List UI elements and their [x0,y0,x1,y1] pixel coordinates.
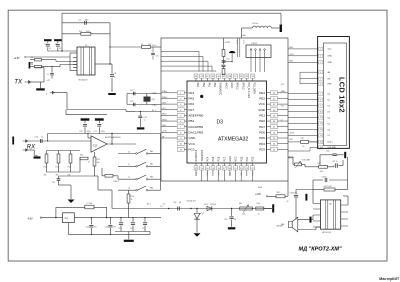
svg-text:AREF/PB0: AREF/PB0 [189,114,204,118]
svg-text:C30: C30 [224,219,227,221]
svg-text:SA4: SA4 [150,187,153,190]
svg-text:+3.3V: +3.3V [224,42,230,44]
svg-text:470p: 470p [87,131,91,133]
svg-text:ATXMEGA32: ATXMEGA32 [218,137,248,143]
svg-text:R46 100R: R46 100R [324,186,333,188]
svg-text:RXD0/PC2: RXD0/PC2 [195,149,198,161]
svg-text:MC34119: MC34119 [79,80,89,82]
svg-text:PRG2: PRG2 [252,43,258,45]
svg-text:DAC0/PB2: DAC0/PB2 [189,125,204,129]
svg-text:D0: D0 [328,93,330,95]
svg-text:C6: C6 [114,73,116,75]
svg-text:R26: R26 [97,159,100,161]
svg-text:XTAL1: XTAL1 [152,92,159,95]
svg-text:VCC: VCC [259,102,266,106]
svg-text:R45: R45 [277,192,280,194]
svg-text:C15: C15 [142,228,145,230]
svg-text:R3: R3 [31,64,33,66]
svg-text:10k: 10k [148,44,151,46]
svg-text:МастерКИТ: МастерКИТ [379,277,400,281]
svg-text:9: 9 [320,105,321,107]
svg-text:VCC: VCC [328,49,333,51]
svg-text:BL.1: BL.1 [147,203,151,205]
svg-text:GND: GND [328,62,333,64]
svg-text:1n: 1n [114,77,116,79]
svg-text:6: 6 [320,83,321,85]
svg-text:C37 1u: C37 1u [332,161,338,163]
svg-text:MC34119: MC34119 [322,232,332,234]
svg-text:13: 13 [128,188,130,190]
svg-text:PD1: PD1 [246,156,249,161]
svg-text:C34: C34 [105,227,108,229]
svg-text:10k: 10k [242,213,245,215]
svg-text:ZQ1: ZQ1 [152,99,156,101]
svg-text:PA2: PA2 [202,83,205,88]
svg-text:C38 1u: C38 1u [322,176,328,178]
svg-text:56: 56 [234,219,236,221]
svg-text:PA0: PA0 [213,83,216,88]
svg-text:D2: D2 [94,143,98,147]
svg-text:PDI_DATA: PDI_DATA [253,83,256,95]
svg-text:1k: 1k [258,213,260,215]
svg-text:C25: C25 [156,56,159,58]
svg-text:0.1: 0.1 [59,48,61,50]
svg-text:XTAL2: XTAL2 [241,83,244,91]
svg-text:BA1: BA1 [281,223,285,226]
svg-text:3: 3 [320,62,321,64]
svg-text:GND: GND [230,83,233,89]
svg-text:C3: C3 [55,44,57,46]
svg-text:8: 8 [320,99,321,101]
svg-text:TX: TX [14,79,23,86]
svg-text:R15: R15 [44,167,47,169]
svg-text:PD5: PD5 [259,136,265,140]
svg-text:R44: R44 [257,203,260,205]
svg-text:VD3: VD3 [204,204,208,206]
svg-text:GND: GND [258,108,266,112]
svg-text:+4.8V: +4.8V [289,133,295,135]
svg-text:11: 11 [320,117,322,119]
svg-text:PA3: PA3 [196,83,199,88]
svg-text:C2: C2 [47,74,49,76]
svg-text:C1: C1 [45,44,47,46]
svg-text:GND0: GND0 [162,119,167,121]
svg-text:PDI_CLK RES: PDI_CLK RES [247,83,250,99]
svg-text:D1: D1 [85,45,87,47]
svg-text:RXD0: RXD0 [152,45,156,47]
svg-text:PD0: PD0 [240,156,243,161]
svg-text:R19: R19 [68,167,71,169]
svg-text:A0: A0 [328,71,330,74]
svg-text:PD2: PD2 [251,172,253,175]
svg-text:0.1: 0.1 [49,48,51,50]
svg-text:SA3: SA3 [150,176,153,179]
svg-text:PA7: PA7 [189,108,195,112]
svg-text:R/W&AVCC: R/W&AVCC [219,83,222,96]
svg-text:C26: C26 [226,59,229,61]
svg-text:1n: 1n [41,136,43,138]
svg-text:GND: GND [289,60,294,62]
svg-text:R24: R24 [80,155,83,157]
svg-text:PE1: PE1 [259,114,265,118]
svg-text:SA1: SA1 [150,150,153,153]
svg-text:5: 5 [320,78,321,80]
svg-text:14: 14 [320,135,322,137]
svg-text:7: 7 [320,93,321,95]
svg-text:C13: C13 [118,228,121,230]
svg-text:SA2: SA2 [150,163,153,166]
svg-text:4: 4 [320,72,321,74]
svg-text:1u: 1u [144,119,146,121]
svg-text:C33: C33 [86,227,89,229]
svg-text:TXD0/PC3: TXD0/PC3 [201,149,204,161]
svg-text:C22: C22 [130,90,133,92]
svg-text:PD2: PD2 [252,156,255,161]
svg-text:R37: R37 [301,138,304,140]
svg-text:L3 100u: L3 100u [252,23,258,25]
svg-text:VOL: VOL [281,105,284,107]
svg-text:R17: R17 [56,167,59,169]
svg-text:+4.8V: +4.8V [14,58,21,60]
svg-text:LED GND: LED GND [328,147,337,149]
svg-text:24k: 24k [320,171,323,173]
svg-text:XTAL2: XTAL2 [162,96,167,99]
svg-text:1: 1 [320,49,321,51]
svg-text:AD8616(AD8605): AD8616(AD8605) [105,136,121,139]
svg-text:PE0: PE0 [259,119,265,123]
svg-text:C10: C10 [35,136,38,138]
svg-text:DT: DT [281,120,283,122]
svg-text:GND: GND [289,47,294,49]
svg-text:+3.3: +3.3 [162,108,166,110]
svg-text:D3: D3 [328,111,330,113]
svg-text:68: 68 [179,202,181,204]
svg-text:VCC: VCC [189,142,196,146]
svg-text:1k: 1k [303,146,305,148]
svg-text:GND: GND [162,125,167,127]
svg-text:PD7: PD7 [259,125,265,129]
svg-text:PB1: PB1 [189,119,195,123]
svg-text:47u: 47u [113,227,116,229]
svg-text:10: 10 [320,111,322,113]
svg-text:VD2 AL307: VD2 AL307 [187,199,196,202]
svg-text:PD0: PD0 [240,172,242,175]
svg-text:PA1: PA1 [207,83,210,88]
svg-text:C36: C36 [326,151,329,153]
svg-text:DAC1/PB3: DAC1/PB3 [189,130,204,134]
svg-text:XTAL1: XTAL1 [162,90,167,93]
svg-text:AVCC: AVCC [224,83,227,90]
svg-text:PA4: PA4 [189,91,195,95]
svg-text:10: 10 [128,151,130,153]
svg-text:PC4: PC4 [206,172,208,175]
svg-text:D1: D1 [328,99,330,101]
svg-text:470p: 470p [101,131,105,133]
svg-text:VOLUME: VOLUME [302,160,311,162]
svg-text:PD6: PD6 [259,130,265,134]
svg-text:47u: 47u [94,227,97,229]
svg-text:0.22: 0.22 [47,80,51,82]
svg-text:XTL1: XTL1 [235,40,237,44]
svg-text:PC6: PC6 [218,156,221,161]
svg-text:XTAL1: XTAL1 [236,83,239,91]
svg-text:GND: GND [162,102,167,104]
svg-text:L2 100: L2 100 [87,203,93,205]
svg-text:МД "КРОТ2-ХМ": МД "КРОТ2-ХМ" [299,247,343,253]
svg-text:C14: C14 [130,228,133,230]
svg-text:GND: GND [328,56,333,58]
svg-text:C21: C21 [52,182,55,184]
svg-text:3.3: 3.3 [163,204,166,206]
svg-text:1k: 1k [88,162,90,164]
svg-text:D6: D6 [328,129,330,131]
svg-text:LCD 16x2: LCD 16x2 [338,77,347,113]
svg-text:PD4: PD4 [259,142,265,146]
svg-text:PC7: PC7 [223,156,226,161]
svg-text:+4.8V: +4.8V [255,194,262,196]
svg-text:10k: 10k [97,162,100,164]
svg-text:R31: R31 [131,196,134,198]
svg-text:47: 47 [287,201,289,203]
svg-text:R43: R43 [239,203,242,205]
svg-text:13: 13 [320,129,322,131]
svg-text:PD3: PD3 [259,147,265,151]
svg-text:12: 12 [320,123,322,125]
svg-text:KD510: KD510 [211,204,217,206]
svg-text:C17: C17 [94,131,97,133]
svg-text:1k: 1k [131,199,133,201]
svg-text:4.8V: 4.8V [28,217,33,220]
svg-text:R2: R2 [31,57,33,59]
svg-text:11: 11 [128,164,130,166]
svg-text:R/W: R/W [328,84,332,86]
svg-text:3.3: 3.3 [160,206,163,208]
svg-text:PC4: PC4 [206,156,209,161]
svg-text:D3: D3 [217,120,224,126]
svg-text:DAC1: DAC1 [114,180,120,183]
svg-text:PE3: PE3 [259,91,265,95]
svg-text:BL.1: BL.1 [152,110,156,112]
svg-text:D7: D7 [328,135,330,137]
svg-text:DAC2: DAC2 [162,113,167,116]
svg-text:C28: C28 [173,202,176,204]
svg-text:2: 2 [320,56,321,58]
svg-text:PC6: PC6 [217,172,219,175]
svg-text:PA5: PA5 [189,97,195,101]
svg-text:XTL2: XTL2 [242,40,244,44]
svg-text:PA6: PA6 [189,102,195,106]
svg-text:12: 12 [128,177,130,179]
svg-text:15: 15 [320,142,322,144]
svg-text:PE2: PE2 [259,97,265,101]
svg-text:PC5: PC5 [212,156,215,161]
svg-text:GND: GND [189,136,197,140]
svg-text:PC0: PC0 [189,147,195,151]
svg-text:C16: C16 [79,131,82,133]
svg-text:XTAL2: XTAL2 [152,104,159,107]
svg-text:GND: GND [229,156,232,162]
svg-text:D5: D5 [328,123,330,125]
svg-text:R5: R5 [141,44,143,46]
svg-text:+4.8V: +4.8V [289,54,295,56]
svg-text:D4: D4 [328,117,330,119]
svg-text:+3.3V: +3.3V [162,131,168,133]
svg-text:RX: RX [27,144,36,150]
svg-text:VCC: VCC [235,156,238,161]
svg-text:7805: 7805 [64,218,68,220]
svg-text:C23: C23 [130,101,133,103]
svg-text:D2: D2 [328,105,330,107]
svg-text:LED +: LED + [328,142,334,144]
